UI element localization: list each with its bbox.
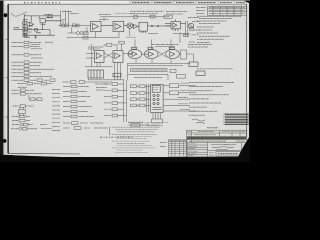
input row 4 sub-label xyxy=(31,57,43,59)
scan background xyxy=(0,0,250,162)
wire xyxy=(72,32,77,34)
bottom black band xyxy=(0,155,250,162)
resistor R61 xyxy=(79,81,85,84)
bus feed verticals xyxy=(146,84,148,112)
module amplifier AR4B xyxy=(113,51,123,63)
op-amp U6B xyxy=(115,53,120,59)
module amplifier AR1 xyxy=(91,21,114,31)
wire xyxy=(145,85,151,87)
below J1: wires down to terminal strip xyxy=(129,113,163,127)
wire in xyxy=(165,23,171,25)
resistor R86 R87 xyxy=(131,104,137,107)
wire xyxy=(163,98,190,100)
resistor R23 xyxy=(113,73,121,77)
row y99: resistors R45 R46 branch xyxy=(29,95,42,101)
lower title area xyxy=(187,143,247,157)
wire xyxy=(67,32,96,38)
input row 7: resistor R35 long xyxy=(12,68,55,70)
wire crossover xyxy=(158,51,166,56)
wire xyxy=(49,30,51,36)
wire xyxy=(62,21,64,25)
wire top horizontal xyxy=(24,15,60,17)
wire xyxy=(175,19,177,22)
wire xyxy=(96,32,120,38)
label texture top-left (dense dark labels) xyxy=(14,15,54,38)
resistor R5 xyxy=(35,29,38,31)
wire output right xyxy=(123,53,133,55)
wire xyxy=(64,11,66,25)
resistor R21 xyxy=(170,69,176,72)
op-amp U8 xyxy=(149,52,154,57)
resistor R15 xyxy=(84,32,89,35)
wire stubs connecting boxes to bus xyxy=(118,83,124,85)
chain row y80: resistors R38 R39 R40 xyxy=(12,79,50,81)
wire xyxy=(128,53,144,55)
header fill xyxy=(169,140,188,142)
wire xyxy=(163,92,169,94)
wire xyxy=(145,104,151,106)
wire xyxy=(38,16,40,19)
input row 6: resistor R34 xyxy=(12,65,41,67)
wire xyxy=(79,32,82,34)
capacitor C1 xyxy=(23,31,27,33)
bus wires vertical xyxy=(118,80,127,122)
relay K1 xyxy=(133,15,173,26)
top-right corner black mark xyxy=(243,0,250,3)
scan grain overlay xyxy=(1,1,249,157)
feedback loop wire xyxy=(166,49,180,58)
heavy left border line xyxy=(7,4,8,153)
amplifier cluster AR6 xyxy=(145,47,159,58)
wire xyxy=(173,33,190,35)
input row 8: resistor R36 xyxy=(12,72,42,74)
input row 9: resistor R37 long xyxy=(12,75,53,77)
top row labels x130-190 xyxy=(99,11,187,14)
amplifier cluster AR5 xyxy=(128,47,144,58)
wire M1 drop xyxy=(129,29,131,37)
capacitor C2 xyxy=(48,16,52,18)
scan top edge xyxy=(0,0,250,2)
border frame of drawing xyxy=(8,4,247,154)
op-amp U9 xyxy=(170,52,175,57)
bottom black band overlay xyxy=(0,155,250,162)
feedback loop wire xyxy=(128,49,142,58)
resistor R11 xyxy=(61,24,64,27)
resistor R13 xyxy=(72,24,75,27)
op-amp U6 xyxy=(96,53,101,59)
wire xyxy=(170,40,172,50)
punch hole bottom xyxy=(3,139,7,143)
wire out xyxy=(181,23,186,25)
node A vertical xyxy=(60,11,62,26)
op-amp U4 xyxy=(115,24,121,30)
right bus and bits xyxy=(173,21,194,37)
resistor R17 feedback xyxy=(107,44,112,47)
resistor R3 xyxy=(23,28,28,31)
connector J2 lower module xyxy=(88,70,121,78)
resistor R82 R83 xyxy=(131,92,137,95)
wire xyxy=(151,40,153,50)
capacitor C7 xyxy=(150,15,155,18)
component rows xyxy=(63,87,94,117)
wire xyxy=(68,11,70,25)
wire xyxy=(121,44,123,51)
module amplifier AR4A xyxy=(95,51,105,63)
wire lower xyxy=(85,66,113,68)
long bus wires under xyxy=(128,62,191,64)
bottom-right corner black blob xyxy=(236,138,250,163)
wire xyxy=(167,74,169,80)
module hybrid Z1 xyxy=(139,22,171,33)
resistor R89 xyxy=(72,122,79,125)
wire input xyxy=(86,53,95,55)
resistor R25 xyxy=(184,34,189,36)
wire xyxy=(45,20,62,22)
connector J1 xyxy=(151,84,163,112)
label strip texture xyxy=(132,69,233,78)
handwriting marks left of block xyxy=(192,119,205,124)
capacitor C4 texture xyxy=(62,19,65,21)
feedback loop below chain: wire xyxy=(68,27,72,33)
wire bus xyxy=(187,21,189,37)
dest labels right of supply rows xyxy=(40,125,52,129)
wire xyxy=(47,83,53,85)
pencil crease top-left xyxy=(11,12,27,16)
wire feedback AR1 xyxy=(100,17,170,22)
wire bus xyxy=(185,21,187,37)
op-amp U7 xyxy=(132,52,137,57)
wire xyxy=(163,105,190,107)
wire out xyxy=(147,25,171,27)
op-amp U5A xyxy=(134,24,140,28)
variable resistor VR1 xyxy=(77,32,80,35)
resistor R88 xyxy=(131,124,140,127)
wire xyxy=(134,40,136,50)
capacitor C5 xyxy=(134,15,137,18)
small labels above chain verticals xyxy=(62,12,109,20)
wire main bus xyxy=(58,25,91,27)
small row labels xyxy=(188,144,199,156)
op-amp U5 xyxy=(173,23,177,27)
wire xyxy=(145,98,151,100)
wire xyxy=(85,81,113,83)
wire xyxy=(24,34,55,36)
dashed control line xyxy=(115,13,136,15)
resistor R18 xyxy=(132,47,137,49)
feedback loop wire xyxy=(145,49,159,58)
wire module outputs down xyxy=(96,63,98,67)
wire xyxy=(179,85,196,87)
wire output right xyxy=(187,54,194,62)
input row 3: resistor R32 xyxy=(12,54,42,56)
pin circles xyxy=(153,94,155,96)
wire xyxy=(145,53,149,55)
filter FL2 xyxy=(169,91,178,95)
resistor R16 xyxy=(83,36,88,39)
input row y93.8: resistor R44 long xyxy=(12,93,42,95)
left-of-table text xyxy=(160,143,167,147)
terminal strip TB1 xyxy=(152,119,163,123)
text marks inside J1 inner box xyxy=(153,88,159,90)
junction dot xyxy=(151,25,152,26)
J1 outputs right xyxy=(163,84,196,111)
relay K2 xyxy=(40,19,45,23)
note numbers bracket xyxy=(110,127,111,135)
resistor R20 xyxy=(169,47,174,49)
input row y120.6: resistor R49 xyxy=(12,120,30,122)
supply row y124.6: circle node and resistor R50 xyxy=(12,124,33,126)
wire xyxy=(30,16,32,22)
wire xyxy=(86,57,95,59)
input row y106: resistor R47 xyxy=(13,105,34,107)
revision status strip above top border xyxy=(130,1,246,4)
wire xyxy=(145,92,151,94)
wire main left vertical xyxy=(23,14,25,38)
each row: net label, series resistor, destination label xyxy=(11,41,55,130)
resistor R84 R85 xyxy=(131,98,137,101)
input resistor pairs to J1 xyxy=(131,84,151,112)
wire feedback xyxy=(104,45,117,51)
chain row along top y82 xyxy=(71,81,113,84)
handwritten title xyxy=(211,144,236,150)
input row 1: label / resistor R30 / wire xyxy=(12,42,54,44)
op-amp U1 xyxy=(29,22,33,26)
transistor network box xyxy=(18,107,25,116)
filter FL1 xyxy=(169,84,178,88)
resistor R80 R81 xyxy=(131,85,137,88)
drawing number dark text xyxy=(218,153,238,155)
supply row y128.7: circle node and resistor R51, -15V xyxy=(11,128,38,130)
punch hole top xyxy=(4,13,8,17)
resistor R24 xyxy=(177,75,186,79)
node B vertical bus xyxy=(91,44,93,67)
wire from bus bottom xyxy=(129,123,149,125)
wire xyxy=(179,32,181,43)
ground xyxy=(34,35,36,39)
bottom-right black blob overlay xyxy=(236,138,250,163)
header text cells xyxy=(188,132,246,135)
resistor R22 output xyxy=(189,62,205,75)
pins xyxy=(172,29,174,31)
resistor R14 xyxy=(76,24,79,27)
revisions table xyxy=(187,130,247,157)
resistor R4 xyxy=(23,34,27,36)
label strip long xyxy=(131,69,168,72)
input row y116.5: resistor R48 xyxy=(12,116,30,118)
wire stub left xyxy=(13,29,23,31)
resistor R19 xyxy=(148,47,153,49)
variable resistor VR2 xyxy=(80,32,83,35)
input row y90.3: resistor R43 xyxy=(12,89,35,91)
pin box right xyxy=(181,50,187,59)
module amplifier AR2 xyxy=(113,21,127,31)
wire xyxy=(163,85,169,87)
paper sheet xyxy=(1,1,249,157)
resistor R60 xyxy=(71,81,77,84)
chain row y83.5: resistors R41 R42 xyxy=(17,83,40,85)
wire crossover pair xyxy=(104,53,113,58)
wire xyxy=(138,25,139,27)
wire xyxy=(163,110,196,112)
capacitor C6 xyxy=(119,41,124,44)
REVISIONS caption xyxy=(207,127,218,129)
input row 5: resistor R33 xyxy=(12,61,43,63)
zone tick marks xyxy=(6,39,9,117)
meter M2 xyxy=(188,23,193,28)
inter-band connecting wires xyxy=(65,11,180,50)
module amplifier AR3 xyxy=(165,22,186,32)
wire xyxy=(84,27,88,33)
resistor R1 xyxy=(23,22,27,25)
resistor R90 xyxy=(74,127,81,130)
input row 2: resistor R31 xyxy=(12,47,43,49)
resistor R12 xyxy=(65,24,68,27)
row y87.5: text xyxy=(18,86,27,88)
wire xyxy=(24,29,50,31)
amplifier cluster AR7 xyxy=(166,47,180,58)
resistor R26 xyxy=(190,27,194,30)
wire xyxy=(179,92,196,94)
resistor R2 xyxy=(23,25,28,28)
left scan edge xyxy=(0,0,3,162)
op-amp U3 xyxy=(93,24,99,30)
dark revision entry row xyxy=(187,137,246,140)
meter M1 xyxy=(127,23,133,29)
fold mark dashes xyxy=(100,136,133,138)
label strip under module xyxy=(88,47,124,80)
wire xyxy=(93,47,95,51)
output labels xyxy=(178,83,190,109)
resistors R62-R68 column xyxy=(71,85,77,118)
wire xyxy=(42,23,44,30)
